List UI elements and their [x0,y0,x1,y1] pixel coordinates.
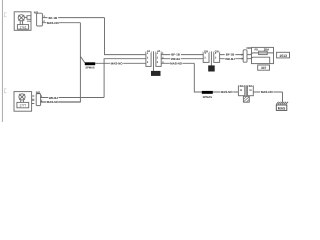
svg-text:NO: NO [246,46,251,50]
wire label WE-BJ [48,96,59,100]
svg-text:MAS-NO: MAS-NO [111,62,124,66]
lamp 177 bulb legs [21,100,24,103]
lamp 176 label box [17,25,28,30]
wire labels conn333 right [170,52,181,56]
lamp 176 bulb legs [20,21,22,25]
lamp 176 bulb X [18,15,24,21]
splice2 SPMAS bar [202,91,213,94]
fuse connector bracket [243,50,247,62]
wire BF-1B lamp to corner [42,17,104,19]
connector 120 center line [210,51,212,65]
connector BA right half [247,86,253,96]
wire vertical V4 [194,63,202,92]
fuse second pin wire [247,57,270,63]
svg-text:MAS-NO: MAS-NO [221,90,234,94]
connector 333 right half [156,52,161,67]
wire label MAS-NO splice1 [110,61,123,65]
connector BA left half [238,86,244,96]
conn120 id box [208,65,215,71]
wire splice2 to conn BA [213,91,239,93]
lamp 176 terminal tab [24,16,31,22]
box 1513 [277,52,290,58]
frame left border [1,0,3,122]
wire conn BA to ground [253,91,282,93]
lamp 177 bulb circle [19,94,25,100]
svg-text:337: 337 [261,66,266,70]
svg-text:WE-BJ: WE-BJ [171,57,181,61]
lamp 177 terminal tabs [32,96,35,104]
svg-text:1513: 1513 [279,54,287,58]
wire label MAS-NO splice2 [220,90,233,94]
svg-text:MAS-NO: MAS-NO [47,21,60,25]
svg-text:BF-1B: BF-1B [49,16,58,20]
wire splice1 to conn 333 [95,62,146,64]
connector bracket at lamp 176 [37,13,43,26]
fuse element [247,53,273,55]
svg-text:BA: BA [240,84,244,88]
svg-text:MAS: MAS [278,106,286,110]
svg-text:NO: NO [36,90,41,94]
wire label MAS-NO to ground [260,90,273,94]
wire vertical to ground [282,92,284,103]
svg-text:MAS-NO: MAS-NO [47,100,60,104]
svg-text:20A: 20A [264,47,270,51]
svg-text:3: 3 [157,61,159,64]
connector 120 left half [203,52,209,62]
wire vertical V3 [104,59,146,98]
svg-text:SPMAS: SPMAS [85,66,95,69]
svg-text:MAS-NO: MAS-NO [261,90,274,94]
connector bracket at lamp 177 [36,94,40,106]
svg-text:2: 2 [147,56,149,59]
svg-text:SPMAS: SPMAS [203,96,213,99]
svg-text:1777: 1777 [19,104,26,108]
svg-text:F5: F5 [254,47,258,51]
svg-text:MAS-NO: MAS-NO [170,61,183,65]
conn333 headers JA JA [146,49,151,53]
svg-text:2: 2 [215,56,217,59]
wire splice tap diagonal [80,56,85,63]
conn BA headers [239,84,244,88]
fuse box [252,47,274,63]
wire vertical V1 [105,18,146,55]
svg-text:1761: 1761 [20,25,27,29]
wire WE-BJ lamp177 to vertical V3 [40,97,104,99]
conn120 headers GR GR [203,49,209,53]
svg-text:11: 11 [249,89,252,92]
conn333 id box [151,71,161,76]
connector BA center line [245,85,247,96]
ground MAS box [276,105,287,110]
svg-text:120: 120 [209,67,215,71]
frame tick middle [4,89,6,93]
svg-text:WE-BJ: WE-BJ [225,57,235,61]
wire label MAS-NO lamp177 [46,100,59,104]
wire label BF-1B [48,15,59,19]
wire vertical V2 [40,23,80,102]
wires conn333 to conn120 [161,55,203,64]
lamp 177 label box [17,102,29,107]
svg-text:2: 2 [204,56,206,59]
lamp 176 outer box [14,12,31,31]
lamp 177 bulb X [19,94,25,100]
connector 333 left half [146,52,151,67]
wire labels conn120 right [225,52,236,56]
svg-text:BA: BA [249,84,253,88]
frame tick top [4,13,6,17]
connector BA id box hatched [243,96,249,102]
ground hatch [276,102,288,105]
wires conn120 to fuse [220,55,244,59]
svg-text:333: 333 [153,72,159,76]
svg-text:3: 3 [147,61,149,64]
splice SPMAS bar [85,62,95,65]
lamp 177 outer box [14,92,32,112]
svg-text:2: 2 [157,56,159,59]
wire MAS-NO lamp177 stub [40,101,80,103]
connector 120 right half [214,52,220,62]
wire MAS-NO lamp176 to vertical [42,22,80,24]
svg-text:NO: NO [34,11,39,15]
lamp 176 bulb circle [18,15,24,21]
svg-text:11: 11 [240,89,243,92]
wire label MAS-NO [47,21,60,25]
box 337 [258,65,270,70]
connector 333 center line [153,51,155,71]
